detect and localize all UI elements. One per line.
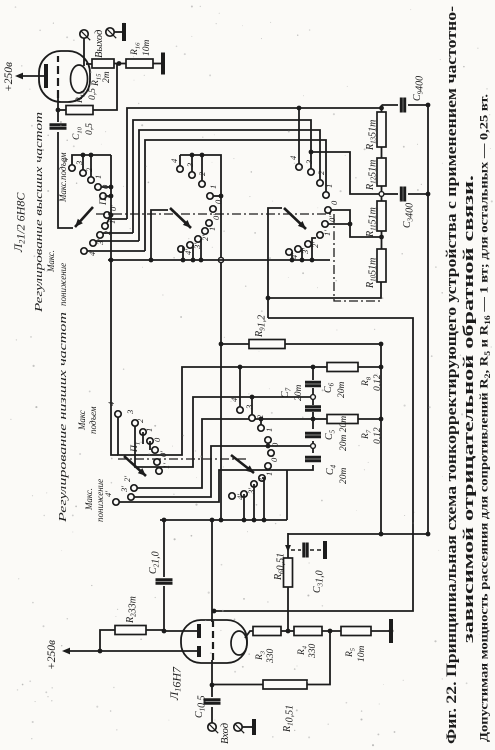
svg-text:C10,5: C10,5 [194, 695, 208, 718]
tube Л1 anode plate bars [197, 624, 201, 657]
svg-text:0: 0 [270, 442, 280, 447]
wire R8 leads [313, 366, 327, 368]
wire C4 to C5 with tap [312, 441, 314, 453]
node primed bus dots [149, 258, 154, 263]
switch П2b contact 1 prime [202, 228, 208, 234]
tube Л2 grid dashes [57, 56, 59, 98]
wire R11 to R12 [381, 186, 383, 201]
switch П2b contact 2 [199, 181, 205, 187]
wire bus B1 П1 position 4 [118, 367, 313, 455]
resistor R2 body [115, 626, 146, 635]
capacitor C10 body [50, 125, 67, 128]
node NFB/grid-bus [219, 518, 224, 523]
svg-text:4': 4' [289, 253, 299, 259]
svg-text:подъем: подъем [88, 406, 98, 434]
svg-text:П1: П1 [130, 442, 142, 453]
svg-text:R1151m: R1151m [365, 207, 379, 238]
wire link primed-common П2 to П1 bus [111, 155, 118, 455]
node feedback return on grid line [212, 609, 217, 614]
wire R1 top lead [212, 684, 263, 686]
switch П2b contact 2 prime [195, 236, 201, 242]
svg-text:C21,0: C21,0 [148, 551, 162, 574]
node feedback/bottom bus [426, 532, 431, 537]
switch П2a contact 4 [69, 165, 75, 171]
capacitor C6 body [305, 407, 321, 410]
wire П2c contact 0 and 0 prime to R10/R11 node [331, 210, 382, 237]
switch П1b wiper arrow [231, 455, 254, 473]
switch П2a contact 0 prime [104, 212, 110, 218]
switch П2c wiper arrow [284, 208, 306, 229]
node C3 bottom bus [426, 192, 431, 197]
svg-text:Макс.: Макс. [84, 488, 94, 511]
svg-text:3: 3 [125, 410, 135, 415]
svg-text:3': 3' [95, 239, 105, 246]
switch П2b contact 0 prime [206, 220, 212, 226]
svg-text:4: 4 [229, 397, 239, 402]
switch П1b contact 4 prime [229, 493, 235, 499]
switch П2c contact 2 prime [305, 241, 311, 247]
node C9 bottom bus [426, 103, 431, 108]
terminal output Выход ground side [106, 28, 114, 36]
switch П2a contact 1 prime [102, 223, 108, 229]
svg-text:1: 1 [144, 428, 154, 432]
node N2 branch [309, 150, 314, 155]
switch П2b contact 4 prime [178, 246, 184, 252]
wire bus B2 П1 position 3 [135, 397, 311, 467]
capacitor C3 400 body [384, 193, 398, 195]
svg-text:2: 2 [316, 170, 326, 175]
svg-text:330: 330 [266, 649, 276, 665]
switch П2b contact 0 [210, 206, 216, 212]
node R2 top on rail [98, 649, 103, 654]
ground at output terminal [122, 23, 126, 41]
wire R10 right to R11 [381, 231, 383, 249]
wire R2 top corner [100, 630, 115, 651]
node feedback/R7R8 line [379, 532, 384, 537]
svg-text:3': 3' [119, 486, 129, 493]
node ladder R8 top [311, 365, 316, 370]
svg-text:1: 1 [208, 185, 218, 189]
capacitor C1 body [204, 700, 221, 703]
triode U2 Л2 1/2 6Н8С envelope [39, 51, 90, 102]
wire П2b primes to primed-common bus [182, 247, 184, 260]
switch П1a contact 2 prime [131, 485, 137, 491]
svg-text:R3: R3 [255, 650, 267, 661]
svg-text:R4: R4 [297, 645, 309, 656]
wire anode Л2 to +250в rail with arrow [22, 75, 44, 77]
svg-text:4': 4' [183, 249, 193, 255]
svg-text:Фиг. 22. Принципиальная схема: Фиг. 22. Принципиальная схема тонкоррект… [444, 6, 460, 744]
wire bus N4 П2 position 1 [145, 140, 326, 251]
switch П2b wiper arrow [170, 208, 191, 228]
svg-text:R10,51: R10,51 [282, 705, 296, 733]
svg-text:20т: 20т [294, 385, 304, 402]
resistor R8 body [327, 363, 358, 372]
resistor R11 body [377, 201, 386, 231]
wire grid bus bottom link to ladder common [286, 470, 288, 520]
wire bus N2 П2 position 3 [133, 120, 311, 233]
svg-text:20т: 20т [339, 468, 349, 485]
tube Л2 anode plate bar [44, 64, 48, 88]
wire primed-common bus П2 [108, 259, 330, 261]
switch П2a contact 2 prime [97, 232, 103, 238]
wire grid line through tube to grid bus [211, 520, 213, 622]
wire R1 bottom to cathode chain junction [307, 631, 330, 685]
switch П2b contact 4 [177, 166, 183, 172]
svg-text:0': 0' [211, 214, 221, 220]
svg-text:0,12: 0,12 [373, 427, 383, 444]
ground below C3 1,0 [323, 541, 327, 559]
svg-text:3: 3 [304, 160, 314, 165]
svg-text:2m: 2m [102, 71, 112, 83]
wire R3 to R4 with R6 tee [281, 630, 294, 632]
capacitor C9 body [382, 104, 399, 106]
wire П1b contact 3 to bus B2 [251, 397, 253, 415]
svg-text:2: 2 [135, 418, 145, 423]
wire bus N1 П2 position 4 [127, 108, 382, 219]
resistor R4 body [294, 627, 322, 636]
switch П2a contact 2 [88, 177, 94, 183]
svg-text:4: 4 [288, 155, 298, 160]
node anode Л1 / C2 / R2 [162, 629, 167, 634]
wire П1a unprimed 2 1 stubs [142, 432, 144, 444]
svg-text:Регулирование высших частот: Регулирование высших частот [33, 112, 45, 313]
node R10/R11 junction [379, 235, 384, 240]
wire N1 tee to П2c contact 4 [298, 108, 300, 164]
wire П2b contact 1 stub to NFB line [213, 195, 221, 197]
switch П2c contact 3 prime [295, 246, 301, 252]
switch П1a contact 0 prime [154, 459, 160, 465]
node grid R14 tee [56, 108, 61, 113]
svg-text:10m: 10m [142, 40, 152, 57]
svg-text:0': 0' [269, 456, 279, 462]
resistor R13 body [377, 112, 386, 147]
switch П1a contact 3 [132, 420, 138, 426]
svg-text:R1051m: R1051m [365, 258, 379, 289]
wire П2a mini bus [72, 155, 111, 165]
capacitor C7 body [305, 382, 321, 385]
svg-text:+250в: +250в [3, 62, 15, 92]
switch П2c contact 4 [296, 164, 302, 170]
node R15/R16/R14 [117, 61, 122, 66]
wire П2b tied contacts mini bus [179, 155, 181, 166]
wire input ground stub [242, 726, 252, 728]
wire R3/R4 junction to R6 [287, 587, 289, 631]
switch П2c contact 1 prime [317, 232, 323, 238]
svg-text:C3400: C3400 [402, 203, 416, 228]
switch П2a contact 0 [100, 193, 106, 199]
svg-text:0': 0' [327, 216, 337, 222]
wire N4 branch to П2a contact 4 prime [87, 250, 145, 252]
svg-text:0': 0' [158, 451, 168, 457]
wire П2b wiper to primed-common bus [151, 210, 168, 260]
svg-text:1': 1' [161, 463, 171, 469]
svg-text:1: 1 [264, 428, 274, 432]
wire C2 to grid bus [163, 520, 165, 577]
switch П2b contact 1 [207, 193, 213, 199]
wire П2a wiper to C10 line [58, 132, 73, 228]
wire П1b primes to grid bus [243, 494, 245, 520]
wire N2 branch to П2a contact 2 prime [103, 232, 133, 234]
wire grid bus vertical [160, 519, 287, 521]
terminal input Вход ground side [234, 723, 242, 731]
svg-text:Допустимая мощность рассеяния: Допустимая мощность рассеяния для сопрот… [477, 94, 493, 742]
tap circle ladder position [311, 444, 316, 449]
svg-text:0,5: 0,5 [85, 123, 95, 135]
wire cathode column Л2 [86, 63, 92, 65]
wire R2 to anode node [146, 630, 199, 631]
gang link П2 dash-dot [96, 214, 380, 301]
switch П2a wiper arrow [75, 207, 93, 227]
svg-text:0,5: 0,5 [88, 88, 98, 100]
svg-text:1: 1 [93, 175, 103, 179]
wire П1b contact 4 to bus B1 [239, 367, 241, 407]
tap circle ladder position 2 [311, 395, 316, 400]
wire П2c pivot line feedback return to grid of Л1 [214, 318, 413, 611]
switch П1b contact 0 prime [265, 463, 271, 469]
wire R9 top lead [221, 343, 249, 345]
svg-text:0,12: 0,12 [373, 374, 383, 391]
wire П1b contact 1 to bus B4 [267, 443, 269, 446]
wire П2c primes to primed-common bus [301, 249, 302, 260]
wire anode node to C2 [163, 586, 165, 631]
switch П2a contact 4 prime [81, 248, 87, 254]
switch П2a contact 1 [95, 184, 101, 190]
ground at input [252, 719, 256, 735]
wire feedback vertical to bottom bus [288, 533, 428, 535]
wire C6 to C7 with tap [312, 388, 314, 405]
wire grid lead Л2 to C10 [57, 98, 59, 122]
switch П2c contact 0 [325, 207, 331, 213]
wire N1 branch to П2a contact 1 prime [107, 219, 127, 223]
wire bottom feedback bus [427, 105, 429, 534]
switch П1a contact 4 prime [113, 499, 119, 505]
resistor R16 body [126, 59, 153, 68]
resistor R6 body [284, 558, 293, 587]
wire R6 to feedback node with arrow [287, 533, 289, 558]
svg-text:C10: C10 [72, 126, 84, 140]
switch П2b contact 3 prime [187, 242, 193, 248]
switch П1b contact 4 [237, 407, 243, 413]
svg-text:10m: 10m [357, 646, 367, 663]
svg-text:2: 2 [84, 167, 94, 172]
svg-text:C4: C4 [325, 464, 338, 475]
wire П2a 0 and 0prime and 1 to primed-common line [106, 195, 111, 197]
wire +250в rail of Л1 with arrow [70, 650, 199, 652]
svg-text:C31,0: C31,0 [312, 570, 326, 593]
switch П1b contact 1 prime [259, 475, 265, 481]
svg-text:C5: C5 [324, 429, 337, 440]
wire C7 to R8 node [312, 367, 314, 380]
terminal output Выход hot [80, 30, 88, 38]
wire ladder spine left segment and riser to wiper [258, 465, 313, 470]
wire R4 to R5 [322, 630, 341, 632]
switch П2a contact 3 prime [90, 240, 96, 246]
node R8 bottom [379, 365, 384, 370]
wire R9 bottom lead [285, 343, 381, 345]
wire input terminal to C1 [211, 707, 213, 723]
svg-text:3: 3 [185, 163, 195, 168]
svg-text:R16: R16 [130, 42, 142, 56]
terminal input Вход hot [208, 723, 216, 731]
resistor R15 body [92, 59, 114, 68]
resistor R7 body [327, 415, 358, 424]
node NFB/П2б contact 1 stub [219, 194, 224, 199]
node R9 bottom [379, 342, 384, 347]
wire N2 branch to R11/R12 node [311, 152, 379, 194]
switch П1b contact 2 prime [251, 481, 257, 487]
switch П1b contact 3 prime [241, 491, 247, 497]
wire C5 to C6 with R7 node [312, 412, 314, 429]
node ground R5 / long return wire [389, 629, 394, 634]
resistor R10 body [377, 249, 386, 282]
wire П2c pivot to R10 line [268, 208, 282, 318]
switch П2c contact 4 prime [286, 249, 292, 255]
triode U1 Л1 6Н7 envelope [181, 620, 247, 663]
svg-text:330: 330 [308, 644, 318, 660]
svg-text:Макс.: Макс. [46, 250, 56, 273]
svg-text:R7: R7 [361, 429, 373, 440]
node grid/R1 [210, 683, 215, 688]
svg-text:0: 0 [329, 200, 339, 205]
svg-text:R91,2: R91,2 [254, 315, 268, 338]
wire cathode Л1 to R3 [245, 631, 253, 638]
node grid bus / grid line [210, 518, 215, 523]
wire R7 leads [313, 418, 327, 420]
switch П2b contact 3 [189, 172, 195, 178]
svg-text:R5: R5 [345, 647, 357, 658]
svg-text:0: 0 [213, 199, 223, 204]
svg-text:понижение: понижение [58, 263, 68, 306]
ground below R16 [161, 53, 165, 75]
wire R12 to R13 [381, 147, 383, 158]
wire R14 top stub [58, 109, 66, 111]
wire R5 to ground [371, 630, 389, 632]
wire NFB line to switch П2б common [180, 155, 221, 520]
svg-text:R15: R15 [91, 73, 103, 87]
capacitor C5 body [305, 433, 321, 436]
capacitor C4 body [305, 457, 321, 460]
svg-text:C9400: C9400 [412, 76, 426, 101]
switch П1b contact 2 [258, 425, 264, 431]
switch П2c contact 0 prime [322, 221, 328, 227]
switch П1a wiper arrow [124, 456, 146, 476]
node R4/R5/R1 junction [328, 629, 333, 634]
svg-text:Регулирование низших частот: Регулирование низших частот [57, 312, 69, 524]
switch П2c contact 1 [323, 192, 329, 198]
svg-text:зависимой отрицательной обратн: зависимой отрицательной обратной связи. [461, 175, 477, 643]
node R13/C9/bus N1 [379, 106, 384, 111]
resistor R1 body [263, 680, 307, 689]
wire R7 R8 R9 bottom line [380, 344, 382, 534]
svg-text:2': 2' [122, 476, 132, 482]
switch П1b contact 1 [265, 437, 271, 443]
gang link П1 dash-dot [118, 458, 246, 460]
svg-text:R8: R8 [361, 376, 373, 387]
wire output ground terminal stub [114, 31, 122, 33]
svg-text:Макс.подъем: Макс.подъем [58, 152, 68, 203]
switch П2c contact 3 [308, 169, 314, 175]
node R7 bottom [379, 417, 384, 422]
svg-text:Л21/2 6Н8С: Л21/2 6Н8С [11, 192, 28, 253]
wire N3 branch to П2a contact 3 prime [96, 240, 139, 242]
node ladder R7 [311, 417, 316, 422]
svg-text:1': 1' [322, 230, 332, 236]
switch П1a contact 3 prime [128, 494, 134, 500]
wire cathode Л2 to output terminal [83, 38, 85, 66]
resistor R12 body [377, 158, 386, 186]
ground below R5 cathode chain [389, 619, 393, 643]
wire bus B5 П1 position 0 from contact 4prime [119, 470, 258, 502]
svg-text:20т 20т: 20т 20т [339, 416, 349, 451]
switch П1a contact 2 [140, 429, 146, 435]
svg-text:Выход: Выход [94, 30, 105, 58]
capacitor C3 1,0 dashed tap to ground [291, 549, 301, 551]
resistor R3 body [253, 627, 281, 636]
switch П2c contact 2 [317, 180, 323, 186]
switch П1a contact 0 [152, 447, 158, 453]
svg-text:4: 4 [169, 158, 179, 163]
svg-text:C6: C6 [323, 382, 336, 393]
wire R10 left lead to wiper line [268, 282, 381, 298]
svg-text:0: 0 [152, 437, 162, 442]
node grid bus / C2 [162, 518, 167, 523]
switch П2a contact 3 [80, 170, 86, 176]
svg-text:+250в: +250в [46, 640, 58, 670]
tube Л1 grid dashes [212, 621, 214, 660]
wire C1 to R1 node and grid of Л1 [211, 660, 213, 697]
svg-text:Макс: Макс [77, 410, 87, 431]
wire bus B4 П1 position 1 from contact 3prime [134, 446, 311, 497]
switch П1a contact 4 [115, 411, 121, 417]
node grid bus primes [242, 518, 247, 523]
wire R13 to C9 node [381, 105, 383, 112]
switch П1a contact 1 [147, 438, 153, 444]
node NFB/R9 [219, 342, 224, 347]
svg-text:R233m: R233m [125, 596, 139, 624]
wire bus N3 П2 position 2 [139, 130, 320, 241]
junction circle R11/R12 C3 node [379, 192, 384, 197]
svg-text:20т: 20т [337, 382, 347, 399]
svg-text:1': 1' [207, 225, 217, 231]
wire R16 to ground [153, 63, 161, 65]
node primed-common crossing bus [109, 258, 114, 263]
node R10 wiper line tee [266, 296, 271, 301]
resistor R9 body [249, 340, 285, 349]
switch П1b contact 0 [268, 450, 274, 456]
crossing circle NFB over primed bus [218, 257, 223, 262]
svg-text:4: 4 [106, 401, 116, 406]
wire П1b contact 2 to bus B3 [260, 419, 262, 425]
switch П1a contact 1 prime [156, 468, 162, 474]
svg-text:0': 0' [108, 205, 118, 211]
resistor R5 body [341, 627, 371, 636]
node N1 tee to П2c contact 4 [297, 106, 302, 111]
wire bus B3 П1 position 2 from contact 2prime [137, 419, 313, 488]
svg-text:понижение: понижение [95, 479, 105, 522]
switch П1b contact 3 [249, 415, 255, 421]
svg-text:Вход: Вход [220, 723, 231, 744]
wire R15 to node [114, 63, 126, 65]
resistor R14 grid leak body [66, 106, 93, 115]
svg-text:Л16Н7: Л16Н7 [167, 666, 184, 701]
wire R14 bottom to cathode node [93, 64, 117, 111]
capacitor C2 body [156, 580, 173, 583]
svg-text:2': 2' [102, 229, 112, 235]
